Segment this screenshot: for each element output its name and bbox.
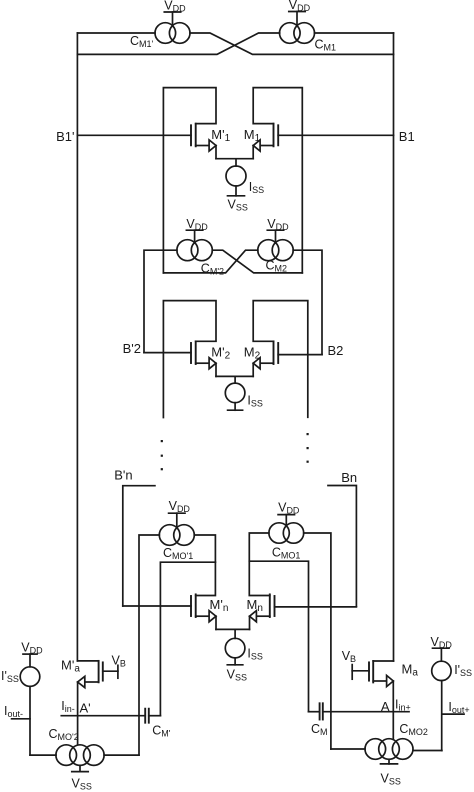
svg-text:I'SS: I'SS: [1, 669, 19, 684]
wire C_M2 output crossing to M'1 drain leg: [163, 250, 257, 273]
wire C_MO1 left terminal down to Mn drain: [249, 533, 269, 596]
current mirror C_MO1: [269, 523, 304, 561]
svg-text:Ma: Ma: [402, 661, 419, 678]
svg-text:VDD: VDD: [278, 500, 300, 515]
current mirror C_M2: [258, 240, 293, 274]
svg-text:ISS: ISS: [247, 393, 263, 408]
current mirror C_MO'1: [159, 525, 194, 562]
wire C_MO'2 left terminal: [30, 754, 56, 756]
node A input line: [323, 698, 411, 715]
svg-text:B2: B2: [328, 343, 344, 358]
transistor M1: [244, 124, 278, 159]
node Bn gate line of Mn: [275, 606, 357, 608]
wire node B1 right rail: [393, 33, 395, 661]
power VDD supply for C_M'2: [186, 217, 208, 243]
svg-text:VDD: VDD: [169, 499, 191, 514]
bias V_B terminal left: [103, 653, 126, 678]
transistor M'n: [191, 594, 228, 629]
node A' input line: [61, 699, 145, 716]
svg-text:M1: M1: [244, 127, 261, 144]
power VDD supply right output branch: [431, 635, 453, 661]
power VDD supply for C_M1: [289, 0, 311, 26]
node B'n input bracket: [114, 467, 155, 606]
power VDD supply left output branch: [21, 641, 43, 667]
node B1 gate line of M1: [278, 129, 415, 144]
svg-text:CM1': CM1': [130, 34, 154, 49]
svg-text:B1': B1': [56, 129, 74, 144]
wire M'2 drain folded down toward stage n: [163, 301, 216, 418]
svg-text:CM1: CM1: [315, 38, 337, 53]
svg-text:ISS: ISS: [247, 647, 263, 662]
svg-text:Iout-: Iout-: [4, 704, 23, 719]
svg-text:VSS: VSS: [381, 772, 401, 787]
svg-text:VSS: VSS: [227, 667, 247, 682]
svg-text:VSS: VSS: [72, 776, 92, 791]
current source I'_SS right: [432, 661, 472, 680]
wire common source node of M'2/M2: [216, 376, 253, 383]
wire C_M1 right terminal to node B1 rail: [315, 32, 394, 34]
wire Mn drain branch down to C_M capacitor: [249, 561, 308, 712]
node B'2 gate line of M'2: [123, 341, 191, 356]
wire C_MO2 left terminal to C_MO1 leg: [331, 748, 365, 750]
wire C_MO'1 left terminal down to C_MO'2: [139, 535, 159, 755]
wire I'SS branch down to C_MO'2: [29, 686, 31, 755]
transistor Mn: [247, 594, 275, 629]
ellipsis continuation dots left column: [161, 440, 163, 470]
svg-text:M'1: M'1: [211, 127, 230, 144]
ground VSS stage 1 tail: [228, 186, 248, 213]
svg-text:ISS: ISS: [249, 180, 265, 195]
svg-text:VSS: VSS: [228, 198, 248, 213]
node B2 gate line of M2: [278, 343, 343, 358]
wire node B1' left rail: [76, 33, 78, 661]
ground VSS stage n tail: [227, 658, 247, 682]
transistor Ma drain stub to B1 rail: [373, 661, 418, 678]
svg-text:I'SS: I'SS: [454, 663, 472, 678]
power VDD supply for C_M1': [164, 0, 186, 26]
power VDD supply for C_MO1: [278, 500, 300, 525]
node I_out- stub: [4, 704, 30, 719]
current source I_SS stage n: [225, 638, 263, 661]
node B'n gate line of M'n: [123, 605, 191, 607]
wire C_MO'2 right terminal to C_MO'1 leg: [104, 754, 139, 756]
ground VSS bottom right mirror: [381, 759, 401, 786]
transistor M'2: [191, 341, 231, 376]
ground VSS stage 2 tail: [228, 403, 243, 411]
svg-text:CMO2: CMO2: [399, 722, 428, 737]
current mirror C_M'2: [177, 240, 224, 277]
wire M'1 drain folded to stage-2 cross line: [163, 88, 216, 273]
transistor M'1: [191, 124, 231, 159]
wire M'n drain branch down to C_M' capacitor: [160, 562, 215, 716]
svg-text:CMO1: CMO1: [272, 545, 301, 560]
svg-text:CM': CM': [152, 723, 171, 738]
current source I'_SS left: [1, 667, 40, 687]
svg-text:A': A': [80, 700, 91, 715]
wire C_MO'1 right terminal down to M'n drain: [194, 535, 215, 596]
svg-text:CMO'1: CMO'1: [163, 546, 193, 561]
current source I_SS stage 1: [226, 166, 264, 195]
transistor Ma: [369, 661, 393, 739]
svg-text:Bn: Bn: [341, 470, 357, 485]
svg-text:Mn: Mn: [247, 597, 263, 614]
transistor M'a drain stub from B1' rail: [61, 657, 99, 674]
current source I_SS stage 2: [225, 383, 263, 408]
svg-text:Iout+: Iout+: [448, 700, 469, 715]
power VDD supply for C_MO'1: [169, 499, 191, 528]
ground VSS bottom left mirror: [72, 765, 92, 791]
svg-text:B1: B1: [399, 129, 415, 144]
wire C_M1' output crossing to B1: [190, 33, 394, 54]
ellipsis continuation dots right column: [307, 433, 309, 463]
svg-text:M'n: M'n: [210, 597, 229, 614]
node Bn input bracket: [328, 470, 357, 606]
wire C_M2 right terminal down to node B2: [293, 250, 322, 354]
svg-text:M'2: M'2: [211, 344, 230, 361]
capacitor C_M': [145, 709, 171, 739]
wire M1 drain folded to stage-2 cross line: [253, 88, 302, 273]
transistor M2: [244, 341, 278, 376]
power VDD supply for C_M2: [267, 217, 289, 243]
svg-text:B'n: B'n: [114, 467, 132, 482]
capacitor C_M: [309, 703, 328, 737]
svg-text:CM'2: CM'2: [201, 261, 224, 276]
svg-text:CM: CM: [311, 722, 328, 737]
svg-text:B'2: B'2: [123, 341, 141, 356]
wire C_MO2 right terminal: [413, 750, 442, 752]
wire I'SS right branch down to C_MO2: [441, 681, 443, 751]
current mirror C_M1': [130, 23, 190, 49]
wire common source node of M'n/Mn: [216, 629, 250, 638]
svg-text:VB: VB: [342, 649, 356, 664]
wire C_M'2 output crossing to M1 drain leg: [212, 250, 302, 273]
wire common source node of M'1/M1: [216, 159, 253, 166]
wire C_M1 output crossing to B1': [77, 33, 279, 54]
bias V_B terminal right: [342, 649, 369, 679]
current mirror C_MO'2: [49, 727, 105, 765]
svg-text:CMO'2: CMO'2: [49, 727, 79, 742]
svg-text:Iin-: Iin-: [61, 699, 75, 714]
wire M2 drain folded down toward stage n: [253, 301, 308, 418]
wire C_M'2 left terminal down to node B'2: [144, 250, 177, 352]
wire C_MO1 right terminal down to C_MO2: [304, 533, 331, 749]
transistor M'a: [78, 661, 103, 745]
current mirror C_MO2: [365, 722, 428, 759]
wire C_M1' left terminal to node B1' rail: [77, 32, 155, 34]
svg-text:M2: M2: [244, 344, 261, 361]
node B1' gate line of M'1: [56, 129, 191, 144]
current mirror C_M1: [280, 23, 337, 53]
svg-text:Iin+: Iin+: [395, 698, 411, 713]
node I_out+ stub: [442, 700, 470, 715]
